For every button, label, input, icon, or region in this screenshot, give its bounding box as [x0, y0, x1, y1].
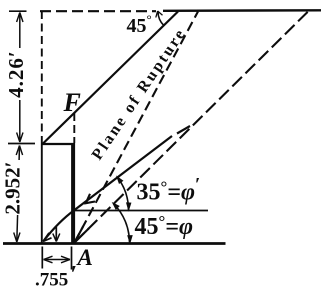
svg-text:A: A	[76, 245, 93, 270]
mid tick between dimensions	[8, 143, 35, 145]
dashed drop line from F point to wall top	[73, 113, 75, 143]
first long dash of steep ray	[75, 226, 84, 242]
dimension 2.952': line upper segment	[18, 146, 20, 161]
35 deg line from wall (solid)	[75, 136, 173, 210]
svg-text:35°=φ′: 35°=φ′	[137, 175, 201, 206]
vertical dashed line above heel	[41, 11, 43, 140]
svg-text:F: F	[63, 88, 81, 117]
last dash of 35 deg line	[177, 126, 190, 134]
dimension .755': left extension line	[41, 247, 43, 269]
2.952' bottom arrow	[14, 233, 20, 243]
45 deg angle arc at top	[158, 12, 164, 26]
dashed 45 deg ray from A	[75, 12, 309, 243]
dimension 4.26': top tick	[9, 10, 27, 12]
wall top horizontal line	[42, 143, 75, 145]
.755' left arrow	[44, 256, 53, 263]
35 arc bottom arrowhead	[127, 203, 131, 211]
horizontal reference line from wall	[75, 210, 208, 212]
2.952' top arrow	[16, 146, 22, 156]
first long dash of 45 deg ray	[75, 228, 90, 242]
45 arc bottom arrowhead	[128, 236, 133, 244]
4.26' top arrow	[17, 13, 23, 23]
svg-text:4.26′: 4.26′	[4, 50, 28, 98]
45 arc top arrowhead	[113, 203, 120, 210]
dimension .755': arrow line	[44, 259, 71, 261]
curved rupture surface near wall base	[44, 210, 75, 241]
dashed steep plane-of-rupture ray from A	[75, 12, 199, 243]
arrowhead at curve base	[43, 233, 52, 242]
dimension 4.26': line lower segment	[19, 100, 21, 142]
open arrowhead on 35 deg line	[86, 194, 95, 203]
backfill surface top line (solid right part)	[163, 9, 321, 12]
svg-text:′: ′	[71, 262, 78, 287]
45 deg angle arc	[113, 204, 129, 243]
dimension 4.26': line upper segment	[19, 13, 21, 49]
wall stem (thick vertical)	[71, 143, 75, 244]
arrowhead of top arc	[156, 11, 163, 18]
svg-text:.755: .755	[35, 270, 68, 287]
dimension .755': right extension line	[71, 247, 73, 270]
dimension 2.952': line lower segment	[16, 215, 19, 242]
ground line at wall base	[3, 242, 226, 245]
45 deg rupture line through F (solid diagonal)	[43, 12, 178, 144]
svg-text:45°=φ: 45°=φ	[135, 212, 194, 240]
35 arc top arrowhead	[117, 177, 123, 184]
35 deg angle arc	[118, 177, 129, 210]
svg-text:2.952′: 2.952′	[1, 161, 25, 214]
backfill surface top line (dashed left part)	[40, 10, 156, 12]
4.26' bottom arrow	[17, 133, 23, 143]
svg-text:45°: 45°	[127, 12, 152, 38]
.755' right arrow	[61, 256, 70, 263]
thin solid vertical line (back face below ground)	[41, 140, 43, 244]
small vertical arrow from curve to ground	[55, 227, 57, 241]
